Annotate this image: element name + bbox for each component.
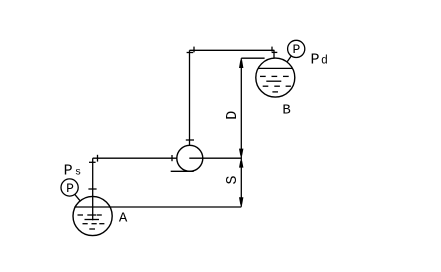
tick top pipe left <box>193 47 195 53</box>
tick riser bottom <box>186 139 194 141</box>
wire suction riser <box>92 158 94 220</box>
svg-text:P: P <box>66 181 74 196</box>
tick drop to tank B <box>272 51 278 53</box>
pressure gauge Ps body <box>61 179 78 196</box>
tick suction riser top <box>89 161 96 163</box>
svg-text:A: A <box>119 211 128 227</box>
tank B body <box>256 58 295 97</box>
dimension arrow S top <box>239 161 243 168</box>
wire pump centerline extension <box>189 157 241 159</box>
tank B liquid surface chord <box>258 67 292 69</box>
wire gauge Ps connector <box>75 194 80 201</box>
tick suction riser bottom <box>88 188 96 190</box>
dimension line vertical <box>240 58 242 207</box>
pressure gauge Pd body <box>288 40 305 57</box>
tank A body <box>73 196 112 235</box>
svg-text:S: S <box>224 175 241 184</box>
tank B liquid dashes <box>260 76 291 92</box>
dimension arrow D bottom <box>239 149 243 156</box>
pump base line <box>171 170 194 172</box>
tick top pipe right <box>271 47 273 52</box>
tick riser top <box>187 52 194 54</box>
svg-text:P: P <box>292 42 300 57</box>
wire drop to tank B <box>273 50 275 58</box>
svg-text:Pd: Pd <box>311 51 328 68</box>
tick suction pipe right <box>171 155 173 161</box>
wire top discharge pipe <box>190 49 275 51</box>
wire gauge Pd connector <box>287 56 291 62</box>
dimension arrow D top <box>239 60 243 68</box>
wire suction pipe <box>93 157 177 159</box>
wire discharge riser <box>189 50 191 145</box>
tick suction pipe left <box>97 155 99 162</box>
pump U1 body <box>177 145 203 171</box>
wire tank B liquid level extension line <box>241 57 264 59</box>
svg-text:D: D <box>224 111 241 120</box>
wire tank A liquid level extension line <box>74 206 241 208</box>
svg-text:B: B <box>282 103 290 119</box>
tank A liquid dashes <box>78 215 105 229</box>
dimension arrow S bottom <box>239 197 243 204</box>
